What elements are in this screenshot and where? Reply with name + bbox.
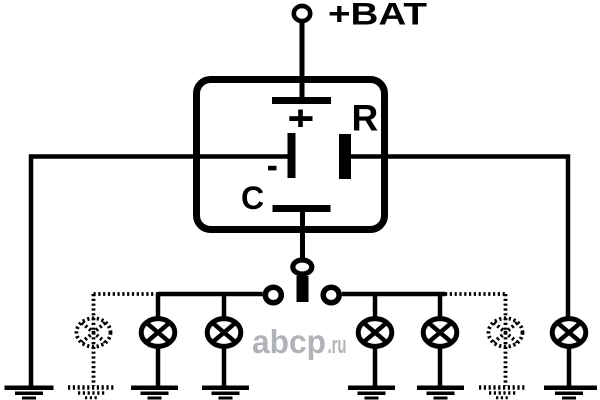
svg-text:.ru: .ru	[328, 332, 347, 359]
switch contact left	[265, 287, 281, 303]
dotted lamp right optional	[489, 294, 523, 386]
switch pivot	[293, 260, 312, 274]
svg-text:C: C	[241, 180, 264, 216]
ground G5	[348, 386, 395, 400]
wire left branch	[158, 292, 263, 297]
dotted lamp left optional	[77, 294, 111, 386]
relay box U1	[197, 80, 385, 230]
dotted wire right option	[445, 292, 507, 296]
label minus	[268, 166, 277, 171]
ground G8	[544, 386, 597, 400]
ground G4	[202, 386, 249, 400]
svg-text:abcp: abcp	[252, 323, 326, 360]
+BAT terminal	[294, 6, 310, 21]
wire left down to ground	[29, 155, 34, 387]
wire right bus to lamp E	[351, 157, 568, 319]
ground G6	[417, 386, 464, 400]
wire +BAT to relay	[300, 21, 305, 100]
pin plate +	[272, 97, 331, 104]
switch contact right	[323, 287, 339, 303]
lamp L2	[207, 294, 241, 386]
ground G7 dotted	[479, 388, 527, 398]
svg-text:+BAT: +BAT	[328, 0, 427, 32]
lamp L5 repeater	[552, 319, 586, 386]
ground G1	[5, 386, 54, 400]
lamp L1	[141, 294, 175, 386]
pin plate C	[273, 205, 331, 212]
watermark abcp.ru	[252, 323, 347, 360]
wire left bus	[29, 154, 288, 159]
switch lever	[297, 276, 309, 302]
svg-text:R: R	[352, 98, 379, 139]
wire C to switch	[300, 212, 305, 260]
ground G3	[131, 386, 178, 400]
ground G2 dotted	[68, 388, 116, 398]
label +	[289, 116, 312, 121]
lamp L4	[423, 294, 457, 386]
pin plate minus	[288, 133, 296, 178]
lamp L3	[358, 294, 392, 386]
wire right branch	[342, 292, 445, 297]
pin plate R	[339, 134, 351, 179]
dotted wire left option	[94, 292, 159, 296]
